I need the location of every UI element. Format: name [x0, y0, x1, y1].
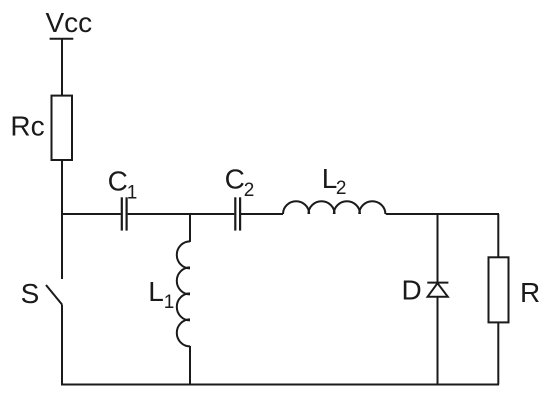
svg-text:R: R	[520, 277, 540, 308]
svg-text:C: C	[108, 166, 128, 197]
svg-text:D: D	[402, 275, 422, 306]
svg-text:L: L	[148, 276, 164, 307]
svg-text:2: 2	[336, 178, 347, 199]
svg-text:2: 2	[244, 180, 255, 201]
svg-text:Vcc: Vcc	[46, 7, 93, 38]
svg-text:C: C	[225, 164, 245, 195]
svg-text:1: 1	[164, 292, 175, 313]
svg-text:Rc: Rc	[10, 110, 44, 141]
svg-text:1: 1	[127, 182, 138, 203]
svg-text:S: S	[21, 278, 40, 309]
